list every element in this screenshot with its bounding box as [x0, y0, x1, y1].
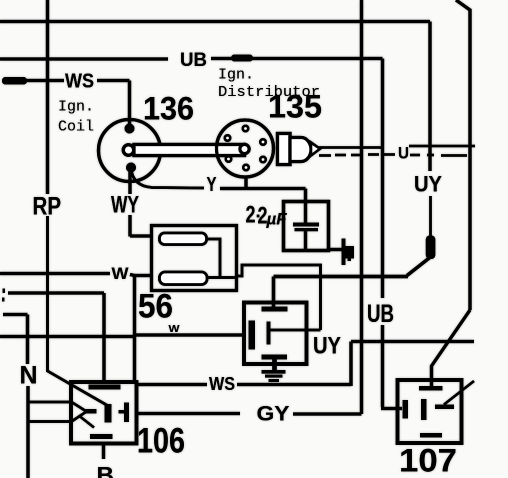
relay 106 center bar: [105, 404, 112, 423]
wire: WS lower line left segment: [135, 383, 208, 386]
relay 107 lever diagonal: [444, 381, 474, 405]
right edge drop elbow: [456, 0, 470, 310]
distributor plug tip: [311, 143, 320, 156]
wire: bus y=336: [0, 335, 135, 338]
U dashed line upper segments: [318, 146, 475, 148]
relay 106 top terminal bar: [89, 385, 121, 390]
wire: GY left segment to relay 106: [136, 412, 240, 415]
wire: resistor box exit to UY relay right: [237, 265, 321, 330]
wire: W vertical drop x=134: [133, 275, 136, 385]
resistor element bottom capsule: [160, 272, 208, 285]
relay UY box: [244, 303, 307, 365]
wire: GY corner into vertical bus: [293, 412, 362, 415]
relay UY top terminal bar: [262, 307, 288, 312]
relay 106 lever tick: [80, 417, 94, 428]
relay UY thin plate: [267, 322, 271, 345]
wire: N feed line y=314: [3, 315, 28, 365]
capacitor bottom stem: [304, 231, 307, 249]
wire: link to UY relay left plate: [135, 333, 245, 336]
relay 107 left plate: [403, 400, 409, 419]
connector bar UY: [426, 236, 436, 260]
wire: feed line y=293: [8, 293, 104, 382]
relay 107 bottom terminal bar: [420, 433, 442, 438]
wire: UB vertical drop x=382 lower into relay 107: [381, 325, 402, 409]
wire: top bus turn-down to UY: [428, 22, 431, 172]
coil terminal dot top: [125, 124, 135, 134]
wire: RP vertical lower + diagonal into relay 106: [48, 216, 112, 408]
wire: UB bus right segment: [252, 57, 383, 60]
wire: N branch upper into relay 106 arrow: [28, 402, 87, 412]
wire: resistor series link: [207, 239, 236, 278]
distributor ring upper-left: [225, 135, 230, 140]
wire: UB vertical drop x=382 upper: [381, 59, 384, 299]
relay 106 arrow contact dash: [84, 409, 97, 414]
chassis connector arrow blob: [346, 246, 355, 259]
wire: UB bus mid segment: [211, 57, 232, 60]
wire: Y line to capacitor: [220, 189, 306, 225]
distributor 135 body circle: [217, 120, 274, 177]
relay UY bottom terminal bar: [262, 355, 288, 360]
wire: W into resistor box: [130, 275, 152, 276]
distributor ring top: [243, 126, 248, 131]
wire: RP vertical upper: [46, 0, 49, 194]
wire: N vertical below label to bottom edge: [26, 386, 29, 478]
tick marks at left end of y293 line: [3, 289, 6, 294]
relay 106 right bar: [124, 403, 129, 423]
relay 106 box: [71, 382, 137, 444]
resistor unit 56 outer box: [152, 226, 237, 291]
coil terminal dot bottom: [126, 163, 136, 173]
wire: coil WY drop upper: [128, 171, 131, 194]
vertical bus x=361 full height: [360, 0, 363, 414]
connector bar WS left edge: [2, 77, 27, 85]
resistor element top capsule: [160, 233, 207, 245]
relay UY left thick plate: [249, 321, 256, 350]
wire: capacitor ground lead right: [329, 248, 342, 251]
wire: coil bottom Y curve: [131, 168, 204, 188]
relay 107 top terminal bar: [419, 386, 443, 391]
ignition coil 136 body circle: [99, 120, 161, 182]
distributor plug capsule: [290, 138, 311, 162]
wire: W bus left: [0, 272, 110, 275]
ground bar 1: [262, 370, 286, 374]
wire: diagonal feed to relay 107 top: [432, 310, 471, 389]
relay 107 box: [398, 380, 462, 443]
wire: WS lower line right + rise to UY feed line: [237, 342, 474, 387]
wire: UB bus left segment: [0, 57, 168, 60]
ground bar 3: [269, 379, 280, 382]
capacitor bottom plate: [295, 228, 319, 231]
wire: WS lead left: [26, 79, 64, 82]
relay 106 right contact dash: [119, 410, 125, 414]
wire: distributor bottom stem: [244, 176, 247, 189]
chassis connector arrow bar: [342, 239, 346, 266]
connector bar on UB bus: [231, 55, 253, 62]
coil center ring: [123, 145, 133, 155]
wire: WY drop lower into resistor box: [130, 215, 152, 237]
relay 107 right contact dash: [435, 405, 454, 410]
distributor ring bottom: [243, 165, 248, 170]
distributor ring upper-right: [260, 139, 265, 144]
wire: top bus horizontal: [0, 20, 430, 23]
distributor cap housing rect: [278, 134, 291, 165]
ground bar 2: [265, 375, 283, 378]
wire: UY lead below label: [429, 196, 432, 237]
wire: N branch lower into relay 106 arrow: [28, 412, 87, 422]
capacitor top plate: [293, 223, 319, 227]
capacitor box: [284, 202, 329, 251]
relay 106 bottom terminal bar: [90, 434, 113, 439]
wire: UY bend to relay UY: [274, 257, 431, 308]
distributor ring lower-right: [260, 157, 265, 162]
shaft bar coil to distributor: [134, 145, 245, 156]
distributor ring lower-left: [226, 156, 231, 161]
relay UY ground stem: [272, 359, 277, 371]
relay 107 center bar: [421, 399, 427, 420]
relay 106 bottom stem: [102, 444, 105, 460]
wire: WS lead to coil: [97, 81, 130, 126]
U dashed line lower dash row: [319, 155, 467, 156]
distributor center ring: [240, 144, 249, 153]
